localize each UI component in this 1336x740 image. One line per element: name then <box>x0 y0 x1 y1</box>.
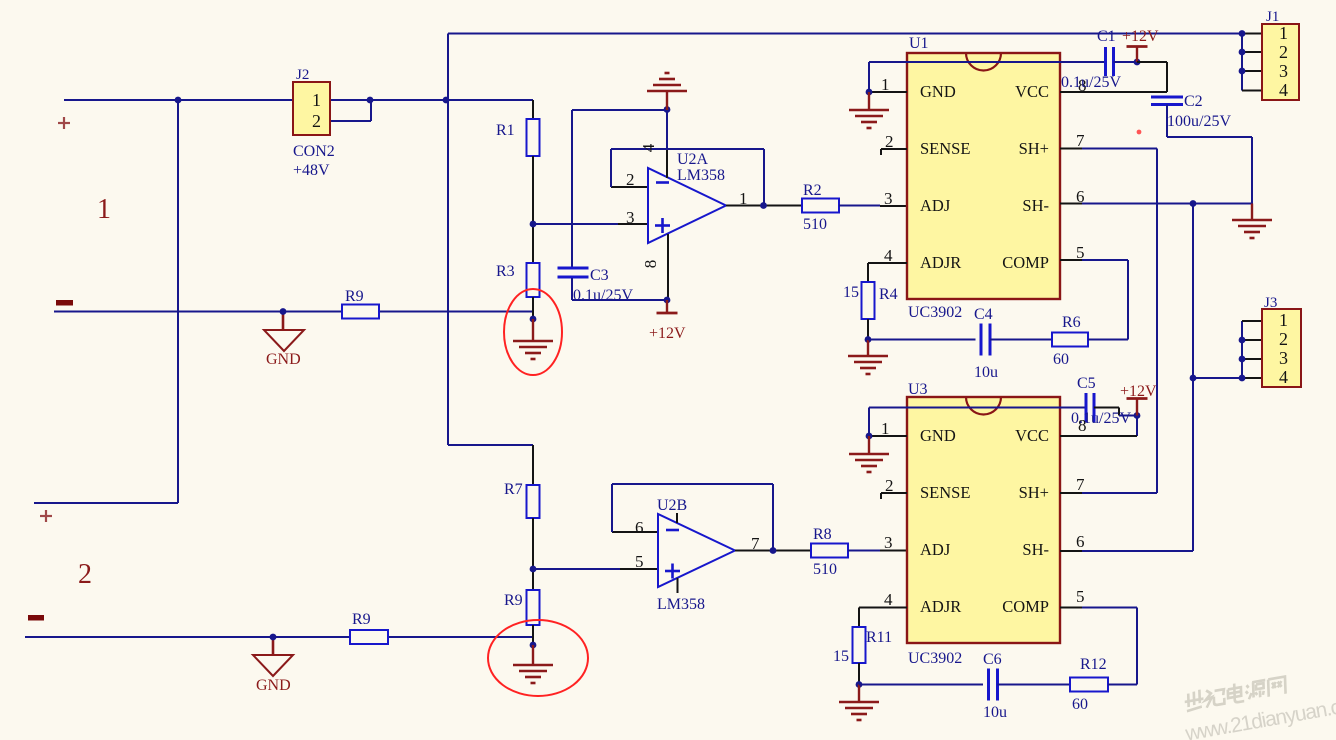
wire U3 SH+ pin7 <box>1060 492 1157 494</box>
resistor R9 lower horizontal <box>350 630 388 644</box>
pin name SENSE <box>920 139 970 158</box>
wire U2B output <box>735 550 811 552</box>
node junction <box>1239 356 1246 363</box>
node junction <box>530 221 537 228</box>
label UC3902 <box>908 304 962 321</box>
power +12V above U3 VCC <box>1127 399 1148 416</box>
svg-text:100u/25V: 100u/25V <box>1167 113 1231 130</box>
svg-text:COMP: COMP <box>1002 253 1049 272</box>
op-amp U2B plus sign <box>665 564 680 579</box>
battery 2 label <box>78 559 92 590</box>
wire R4 bottom <box>867 319 869 340</box>
label 0.1u/25V <box>1071 410 1131 427</box>
svg-text:J2: J2 <box>296 67 309 83</box>
svg-text:7: 7 <box>751 534 760 553</box>
svg-text:J1: J1 <box>1266 9 1279 25</box>
label J1 <box>1266 9 1279 25</box>
pin number 1 <box>881 75 890 94</box>
svg-text:6: 6 <box>1076 532 1085 551</box>
pin number 3 <box>884 533 893 552</box>
wire +12V node to VCC <box>1060 62 1167 92</box>
svg-text:R8: R8 <box>813 526 832 543</box>
wire U2B pin8 tick top <box>676 513 678 523</box>
svg-text:2: 2 <box>626 170 635 189</box>
wire U3 pin4 stub <box>859 607 907 609</box>
label +48V <box>293 162 330 179</box>
svg-text:U2A: U2A <box>677 151 709 168</box>
op-amp U2B minus sign <box>666 529 679 532</box>
svg-text:4: 4 <box>639 143 658 152</box>
svg-text:R2: R2 <box>803 182 822 199</box>
power +12V under U2A <box>657 300 678 313</box>
node junction <box>530 316 537 323</box>
wire R11 node to C6 <box>859 684 983 686</box>
svg-text:15: 15 <box>833 648 849 665</box>
label R9 <box>345 288 364 305</box>
node junction <box>770 547 777 554</box>
svg-text:CON2: CON2 <box>293 143 335 160</box>
svg-text:U1: U1 <box>909 35 929 52</box>
annotation ellipse red circle 1 <box>504 289 562 375</box>
IC U1 notch <box>966 53 1001 70</box>
wire U1 pin4 stub <box>868 262 907 264</box>
svg-text:GND: GND <box>256 677 291 694</box>
node junction <box>530 642 537 649</box>
power +12V above C1 <box>1127 47 1148 63</box>
resistor R7 <box>527 485 540 518</box>
wire R7 to R9 <box>532 518 534 590</box>
label R4 <box>879 286 898 303</box>
wire battery1+ horizontal <box>64 99 446 101</box>
wire U2A feedback <box>611 149 764 206</box>
label CON2 <box>293 143 335 160</box>
annotation ellipse red circle 2 <box>488 620 588 696</box>
svg-text:3: 3 <box>1279 61 1288 81</box>
wire VCC riser U3 <box>1060 416 1137 437</box>
wire R12 to COMP U3 <box>1060 608 1137 685</box>
pin number 5 <box>1076 587 1085 606</box>
node junction <box>280 308 287 315</box>
pin name SH- <box>1022 540 1049 559</box>
wire gnd tap battery1 <box>282 312 285 331</box>
pin name ADJ <box>920 540 951 559</box>
pin name COMP <box>1002 597 1049 616</box>
label LM358 <box>677 167 725 184</box>
label C2 <box>1184 93 1203 110</box>
wire U2A pin8 supply <box>667 234 669 300</box>
svg-text:15: 15 <box>843 284 859 301</box>
label C5 <box>1077 375 1096 392</box>
label R2 <box>803 182 822 199</box>
pin number 2 <box>1279 42 1288 62</box>
op-amp U2A triangle <box>648 168 726 243</box>
label 15 <box>843 284 859 301</box>
svg-text:SENSE: SENSE <box>920 139 970 158</box>
ground power-ground at SH- node <box>1232 204 1272 239</box>
ground power-ground under R9v <box>513 645 553 683</box>
svg-text:SENSE: SENSE <box>920 483 970 502</box>
wire U1 gnd rail over IC <box>869 62 1105 92</box>
svg-text:UC3902: UC3902 <box>908 650 962 667</box>
resistor R3 <box>527 263 540 297</box>
connector J3 <box>1262 309 1301 387</box>
pin number 7 <box>1076 131 1085 150</box>
svg-text:LM358: LM358 <box>677 167 725 184</box>
wire U1 pin1 stub <box>869 91 907 93</box>
node junction <box>664 106 671 113</box>
node small red dot artifact <box>1137 130 1142 135</box>
node junction <box>856 681 863 688</box>
label U3 <box>908 381 928 398</box>
svg-text:10u: 10u <box>983 704 1007 721</box>
svg-text:VCC: VCC <box>1015 426 1049 445</box>
svg-text:C1: C1 <box>1097 28 1116 45</box>
wire J3 pin stubs <box>1242 321 1262 378</box>
wire J2 pin2 riser <box>330 100 371 121</box>
wire R1 to R3 <box>532 156 534 263</box>
label C4 <box>974 306 993 323</box>
pin name GND <box>920 426 956 445</box>
svg-text:U3: U3 <box>908 381 928 398</box>
pin number 1 <box>1279 23 1288 43</box>
node junction <box>664 297 671 304</box>
svg-text:ADJ: ADJ <box>920 540 951 559</box>
pin name VCC <box>1015 82 1049 101</box>
wire U3 pin4 riser <box>858 608 860 628</box>
pin number 3 <box>626 208 635 227</box>
pin name ADJR <box>920 253 961 272</box>
label +12V <box>649 325 686 342</box>
pin number 7 <box>1076 475 1085 494</box>
svg-text:ADJR: ADJR <box>920 253 961 272</box>
svg-text:0.1u/25V: 0.1u/25V <box>1071 410 1131 427</box>
svg-text:J3: J3 <box>1264 295 1277 311</box>
pin number 4 <box>1279 80 1288 100</box>
svg-text:6: 6 <box>635 518 644 537</box>
wire C1 to +12V node <box>1114 61 1138 63</box>
svg-text:7: 7 <box>1076 131 1085 150</box>
svg-text:VCC: VCC <box>1015 82 1049 101</box>
pin number 4 <box>1279 367 1288 387</box>
node junction <box>1239 30 1246 37</box>
ground power-ground above U2A <box>647 73 687 110</box>
ground GND triangle battery1 <box>264 330 304 351</box>
label U2A <box>677 151 709 168</box>
pin number 1 <box>739 189 748 208</box>
battery 1 label <box>97 194 111 225</box>
pin number 1 <box>1279 310 1288 330</box>
pin name COMP <box>1002 253 1049 272</box>
svg-text:R6: R6 <box>1062 314 1081 331</box>
svg-text:UC3902: UC3902 <box>908 304 962 321</box>
label J2 <box>296 67 309 83</box>
pin name SH+ <box>1019 139 1049 158</box>
node junction <box>1239 337 1246 344</box>
node battery1 negative terminal label - <box>56 300 73 306</box>
svg-text:3: 3 <box>884 189 893 208</box>
svg-text:U2B: U2B <box>657 497 687 514</box>
pin name SENSE <box>920 483 970 502</box>
pin number 2 <box>885 476 894 495</box>
wire R6 to COMP <box>1060 260 1128 340</box>
node junction <box>760 202 767 209</box>
svg-text:R12: R12 <box>1080 656 1107 673</box>
svg-text:8: 8 <box>641 260 660 269</box>
wire SH- bus vertical <box>1192 204 1194 552</box>
label R11 <box>866 629 892 646</box>
wire U1 SH- pin6 <box>1060 203 1252 205</box>
svg-text:R9: R9 <box>345 288 364 305</box>
label R1 <box>496 122 515 139</box>
wire U3 pin2 stub with hook <box>881 493 907 499</box>
svg-text:C6: C6 <box>983 651 1002 668</box>
svg-text:+12V: +12V <box>1120 383 1157 400</box>
ground power-ground U3 pin1 <box>849 436 889 472</box>
node junction <box>443 97 450 104</box>
label 10u <box>974 364 998 381</box>
ground GND triangle battery2 <box>253 655 293 676</box>
label R9 <box>352 611 371 628</box>
node junction <box>866 433 873 440</box>
svg-text:LM358: LM358 <box>657 596 705 613</box>
node junction <box>175 97 182 104</box>
pin number 3 <box>884 189 893 208</box>
pin number 2 <box>312 111 321 131</box>
pin number 6 <box>1076 187 1085 206</box>
svg-text:GND: GND <box>266 351 301 368</box>
wire U2B pin6 stub <box>612 531 658 533</box>
label U2B <box>657 497 687 514</box>
wire rail elbow to R7 <box>448 445 533 485</box>
svg-text:R11: R11 <box>866 629 892 646</box>
svg-text:510: 510 <box>813 561 837 578</box>
node junction <box>270 634 277 641</box>
pin number 2 <box>626 170 635 189</box>
pin number 1 <box>312 90 321 110</box>
svg-text:5: 5 <box>635 552 644 571</box>
wire U2A pin3 input <box>533 223 648 225</box>
IC U1 UC3902 body <box>907 53 1060 299</box>
resistor R2 <box>802 199 839 213</box>
svg-text:R3: R3 <box>496 263 515 280</box>
node junction <box>530 566 537 573</box>
wire battery1- horizontal <box>54 311 533 313</box>
wire gnd tap battery2 <box>272 637 275 655</box>
pin name SH- <box>1022 196 1049 215</box>
label 10u <box>983 704 1007 721</box>
wire U2B feedback <box>612 484 773 551</box>
pin number 3 <box>1279 348 1288 368</box>
pin number 7 <box>751 534 760 553</box>
wire C3 bottom <box>572 278 667 300</box>
ground power-ground under R3 <box>513 319 553 359</box>
svg-text:1: 1 <box>312 90 321 110</box>
svg-text:ADJR: ADJR <box>920 597 961 616</box>
capacitor C5 <box>1086 393 1094 422</box>
pin name ADJ <box>920 196 951 215</box>
wire J3 bus vertical <box>1241 321 1243 378</box>
pin number 4 <box>884 246 893 265</box>
svg-text:R1: R1 <box>496 122 515 139</box>
capacitor C6 <box>989 669 998 701</box>
wire J1 pin stubs <box>1242 34 1262 91</box>
pin number 4 rotated <box>639 143 658 152</box>
wire R4 node to C4 <box>868 339 976 341</box>
svg-text:R4: R4 <box>879 286 898 303</box>
label GND <box>256 677 291 694</box>
svg-text:2: 2 <box>312 111 321 131</box>
node junction <box>1134 412 1141 419</box>
capacitor C3 <box>558 268 589 277</box>
wire C2 bottom to SH- node <box>1167 105 1252 204</box>
pin number 6 <box>1076 532 1085 551</box>
svg-text:7: 7 <box>1076 475 1085 494</box>
pin number 8 <box>1078 76 1087 95</box>
label 510 <box>813 561 837 578</box>
resistor R6 <box>1052 333 1088 347</box>
svg-text:GND: GND <box>920 82 956 101</box>
node junction <box>1239 375 1246 382</box>
wire battery2- horizontal <box>25 636 533 638</box>
svg-text:+12V: +12V <box>1122 28 1159 45</box>
label R6 <box>1062 314 1081 331</box>
ground power-ground under R11 <box>839 685 879 721</box>
node junction <box>865 336 872 343</box>
pin number 6 <box>635 518 644 537</box>
pin number 7 label placeholder <box>0 0 1 1</box>
op-amp U2A plus sign <box>655 218 670 233</box>
watermark <box>1178 664 1336 740</box>
label C1 <box>1097 28 1116 45</box>
node junction <box>367 97 374 104</box>
label LM358 <box>657 596 705 613</box>
svg-text:60: 60 <box>1053 351 1069 368</box>
pin number 2 <box>885 132 894 151</box>
svg-text:SH+: SH+ <box>1019 483 1049 502</box>
label GND <box>266 351 301 368</box>
svg-text:4: 4 <box>1279 367 1288 387</box>
svg-text:0.1u/25V: 0.1u/25V <box>573 287 633 304</box>
wire U2B pin5 input <box>533 568 658 570</box>
label R8 <box>813 526 832 543</box>
wire +48V rail top horizontal <box>448 33 1242 35</box>
svg-text:R9: R9 <box>504 592 523 609</box>
svg-text:1: 1 <box>1279 23 1288 43</box>
node battery1 positive terminal label + <box>58 117 70 129</box>
wire J3 feed <box>1193 377 1242 379</box>
node junction <box>1239 68 1246 75</box>
pin name ADJR <box>920 597 961 616</box>
label C6 <box>983 651 1002 668</box>
label R7 <box>504 481 523 498</box>
wire U3 pin1 stub <box>869 435 907 437</box>
wire R9v bottom <box>532 625 534 645</box>
pin number 8 <box>1078 416 1087 435</box>
svg-text:10u: 10u <box>974 364 998 381</box>
wire R3 bottom <box>532 297 534 319</box>
pin name GND <box>920 82 956 101</box>
svg-text:R7: R7 <box>504 481 523 498</box>
svg-text:COMP: COMP <box>1002 597 1049 616</box>
svg-text:2: 2 <box>1279 329 1288 349</box>
svg-text:1: 1 <box>97 194 111 225</box>
label U1 <box>909 35 929 52</box>
svg-text:SH-: SH- <box>1022 540 1049 559</box>
label 100u/25V <box>1167 113 1231 130</box>
pin number 5 <box>635 552 644 571</box>
connector J1 <box>1262 24 1299 100</box>
wire U2A output <box>726 205 802 207</box>
resistor R1 <box>527 119 540 156</box>
svg-text:GND: GND <box>920 426 956 445</box>
label R9 <box>504 592 523 609</box>
svg-text:2: 2 <box>1279 42 1288 62</box>
connector J2 <box>293 82 330 135</box>
resistor R11 <box>853 627 866 663</box>
node battery2 positive terminal label + <box>40 510 52 522</box>
wire U3 gnd rail over IC <box>869 408 1085 437</box>
label +12V <box>1122 28 1159 45</box>
wire U3 SH- pin6 <box>1060 550 1193 552</box>
op-amp U2A minus sign <box>656 181 669 184</box>
label 15 <box>833 648 849 665</box>
svg-text:60: 60 <box>1072 696 1088 713</box>
pin number 3 <box>1279 61 1288 81</box>
node junction <box>1190 375 1197 382</box>
label 0.1u/25V <box>1061 74 1121 91</box>
svg-text:3: 3 <box>884 533 893 552</box>
wire R8 to U3 pin3 <box>848 550 907 552</box>
wire C4 to R6 <box>990 339 1052 341</box>
resistor R9 vertical <box>527 590 540 625</box>
wire +48V rail vertical <box>447 34 449 446</box>
label 0.1u/25V <box>573 287 633 304</box>
svg-text:SH-: SH- <box>1022 196 1049 215</box>
svg-text:2: 2 <box>78 559 92 590</box>
label +12V <box>1120 383 1157 400</box>
wire battery1+ to battery2+ vertical <box>177 100 179 503</box>
label UC3902 <box>908 650 962 667</box>
pin name SH+ <box>1019 483 1049 502</box>
svg-text:+48V: +48V <box>293 162 330 179</box>
svg-text:ADJ: ADJ <box>920 196 951 215</box>
svg-text:5: 5 <box>1076 587 1085 606</box>
pin number 1 <box>881 419 890 438</box>
svg-text:1: 1 <box>1279 310 1288 330</box>
wire U1 pin2 stub with hook <box>881 149 907 155</box>
svg-text:C2: C2 <box>1184 93 1203 110</box>
label R3 <box>496 263 515 280</box>
svg-text:3: 3 <box>1279 348 1288 368</box>
capacitor C2 <box>1151 97 1183 105</box>
label 60 <box>1053 351 1069 368</box>
svg-text:4: 4 <box>1279 80 1288 100</box>
wire R2 to U1 pin3 <box>839 205 907 208</box>
wire C3 branch vertical upper <box>571 110 573 267</box>
svg-text:C3: C3 <box>590 267 609 284</box>
svg-text:C5: C5 <box>1077 375 1096 392</box>
svg-text:510: 510 <box>803 216 827 233</box>
capacitor C1 <box>1106 47 1114 76</box>
resistor R9 upper <box>342 305 379 319</box>
wire C6 to R12 <box>998 684 1071 686</box>
node junction <box>1134 59 1141 66</box>
pin name VCC <box>1015 426 1049 445</box>
pin number 2 <box>1279 329 1288 349</box>
wire U1 SH+ pin7 <box>1060 148 1157 150</box>
svg-text:SH+: SH+ <box>1019 139 1049 158</box>
wire pin4 node to C3 top <box>572 109 667 111</box>
